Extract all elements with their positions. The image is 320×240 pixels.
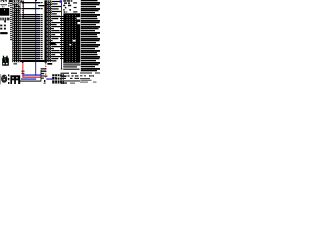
red vertical net 2: [22, 61, 24, 64]
barcode block: [52, 74, 64, 84]
U2 right wires upper: [52, 1, 61, 2]
J1 aux dashes: [73, 2, 77, 3]
title logo arches: [8, 74, 9, 76]
revision text A: [0, 25, 2, 27]
logo disc: [1, 75, 7, 83]
title row 2: [61, 75, 67, 77]
tick on red dashed: [44, 76, 47, 77]
blue net label: [60, 0, 61, 3]
U1 right pin ticks: [22, 0, 24, 3]
J1 bottom labels: [63, 62, 80, 63]
blue rail 2b: [46, 79, 52, 80]
IC U2 body text: [47, 0, 52, 62]
thick bottom wire: [21, 60, 45, 62]
designer text line: [0, 18, 9, 21]
blue bus 2 end cap: [61, 69, 63, 70]
red rail: [22, 77, 40, 78]
U1 body top gap: [12, 2, 20, 5]
J1 body notches: [77, 17, 81, 19]
header subtext: [13, 2, 15, 3]
sheet header text: [1, 0, 4, 2]
title block border horizontal: [20, 81, 41, 82]
title row 3: [61, 78, 66, 79]
U1 bottom note: [14, 63, 18, 64]
U1 aux label marks: [8, 3, 10, 5]
U1 pin grid holes: [12, 1, 15, 63]
wire stub U2: [38, 5, 44, 6]
red net RST vertical wire: [23, 0, 24, 18]
wire bus top 2: [22, 8, 41, 9]
header dots: [2, 6, 3, 7]
U1 pin name labels: [10, 3, 12, 4]
title row 4 bar: [60, 80, 80, 81]
designer text tail: [4, 20, 6, 22]
IC U1 body: [12, 1, 20, 63]
title row 1: [61, 73, 70, 74]
U2 left pin stubs: [41, 16, 43, 17]
header rule: [0, 3, 7, 6]
red dashed net wire: [45, 61, 46, 64]
IC U2 left edge: [44, 0, 46, 62]
U2 right wires mid: [52, 16, 62, 17]
blue bus 1 top cap: [35, 0, 37, 2]
title text rows left: [41, 68, 47, 69]
left sheet border: [0, 74, 2, 85]
connector J1 body: [63, 13, 80, 62]
title block border vertical: [40, 70, 43, 81]
blue net vertical bus 1: [34, 0, 37, 75]
logo block top-left: [0, 8, 9, 16]
wire bus top 3: [22, 14, 41, 15]
bold note bar: [0, 32, 7, 34]
U1 right pin stubs: [20, 16, 23, 17]
owl green eye: [4, 58, 5, 59]
blue rail 2a: [21, 79, 36, 80]
U2 bottom-right stub: [52, 60, 57, 61]
wire bundle U1-U2: [22, 16, 41, 17]
revision text B: [0, 28, 2, 30]
blue vertical bus 2: [60, 0, 63, 69]
disc green dot: [2, 77, 3, 78]
connector J1 top labels: [63, 0, 66, 2]
wire bus top 1: [22, 2, 41, 3]
U2 bottom label: [47, 63, 52, 65]
U1 body top texture gaps: [12, 5, 14, 8]
blue rail 1: [22, 75, 40, 76]
red pin1 mark U2: [46, 6, 49, 7]
pin ticks right block: [60, 16, 64, 17]
net label table right: [81, 0, 98, 1]
logo owl: [3, 56, 4, 58]
ticks on red net 2: [21, 70, 24, 73]
gnd symbol marks: [44, 80, 45, 82]
U2 value label block: [50, 42, 56, 44]
title row 5: [61, 82, 67, 83]
